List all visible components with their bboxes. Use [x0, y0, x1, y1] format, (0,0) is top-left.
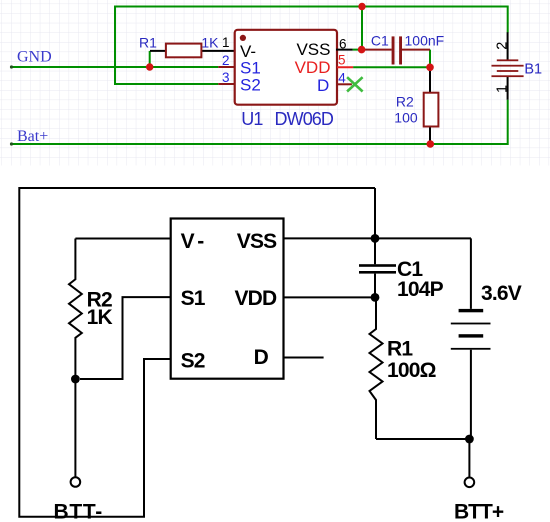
- svg-text:GND: GND: [17, 49, 52, 66]
- junction dot VDD/C1 (bottom): [371, 293, 380, 302]
- junction dot top wire: [358, 3, 365, 10]
- battery 3.6V: [451, 238, 522, 439]
- svg-text:1: 1: [494, 85, 510, 93]
- battery B1: [492, 32, 543, 99]
- resistor R2: [394, 67, 438, 144]
- junction dot R2/Bat+: [427, 140, 435, 148]
- junction dot VSS/C1: [358, 46, 366, 54]
- wire VDD row: [284, 296, 376, 298]
- svg-text:S2: S2: [240, 76, 261, 95]
- svg-text:104P: 104P: [397, 278, 444, 301]
- pin 6 VSS: [296, 36, 352, 59]
- svg-text:VSS: VSS: [237, 230, 277, 253]
- junction dot BTT+: [465, 435, 474, 444]
- svg-text:V -: V -: [181, 230, 205, 253]
- wire S1 to BTT- node: [80, 297, 171, 379]
- terminal BTT+: [465, 478, 475, 488]
- svg-text:6: 6: [339, 36, 347, 51]
- svg-text:D: D: [254, 346, 269, 369]
- svg-text:3.6V: 3.6V: [481, 282, 522, 305]
- svg-text:C1: C1: [371, 33, 389, 49]
- no-ERC marker X on pin 4: [347, 77, 363, 91]
- wire outer loop (S2 to VSS node): [19, 188, 375, 517]
- svg-text:R1: R1: [139, 35, 157, 51]
- wire VDD net: [353, 50, 430, 68]
- wire VSS node drop: [374, 188, 376, 238]
- wire bottom row to battery: [376, 438, 469, 440]
- pin 3 S2: [218, 70, 260, 95]
- wire GND net: [12, 66, 219, 68]
- capacitor C1: [361, 33, 444, 65]
- resistor R1: [139, 35, 235, 58]
- svg-text:VSS: VSS: [296, 40, 330, 59]
- svg-text:5: 5: [338, 53, 346, 68]
- svg-text:S1: S1: [181, 287, 206, 310]
- svg-text:R2: R2: [396, 93, 414, 109]
- wire VSS to battery: [284, 237, 472, 239]
- terminal BTT-: [71, 477, 81, 487]
- svg-text:1K: 1K: [87, 306, 113, 329]
- resistor R2 1K: [69, 239, 112, 380]
- svg-text:VDD: VDD: [234, 287, 277, 310]
- wire R1 to GND: [149, 51, 151, 67]
- wire Bat+ net: [12, 100, 508, 144]
- node GND endpoint: [10, 65, 13, 68]
- pin 5 VDD: [295, 53, 354, 77]
- junction dot VSS/C1 (bottom): [371, 234, 380, 243]
- svg-text:4: 4: [338, 70, 346, 85]
- pin 2 S1: [218, 53, 260, 78]
- svg-text:DW06D: DW06D: [275, 109, 334, 129]
- capacitor C1 104P: [359, 238, 444, 300]
- svg-text:100nF: 100nF: [405, 33, 445, 49]
- svg-text:1K: 1K: [201, 35, 219, 51]
- junction dot VDD/C1/R2: [426, 64, 434, 72]
- svg-text:U1: U1: [241, 109, 263, 129]
- svg-text:100Ω: 100Ω: [387, 359, 436, 382]
- pin 1 V-: [222, 35, 256, 61]
- svg-text:100: 100: [394, 110, 418, 126]
- pin 4 D: [317, 70, 352, 94]
- svg-text:2: 2: [494, 42, 510, 50]
- svg-text:VDD: VDD: [295, 58, 331, 77]
- wire V- to R2: [75, 238, 170, 240]
- node Bat+ endpoint: [10, 142, 13, 145]
- op-amp U1 DW06D chip body: [235, 30, 337, 129]
- svg-text:D: D: [317, 76, 329, 95]
- svg-text:2: 2: [222, 53, 230, 68]
- wire to BTT- terminal: [74, 383, 76, 477]
- svg-text:S2: S2: [181, 349, 205, 372]
- chip body (bottom): [171, 219, 284, 379]
- svg-text:3: 3: [222, 70, 230, 85]
- svg-text:R1: R1: [387, 337, 413, 360]
- junction dot BTT-: [71, 375, 80, 384]
- wire top net (S2/VSS/B1+): [115, 7, 508, 85]
- resistor R1 100ohm: [370, 297, 436, 439]
- svg-text:B1: B1: [524, 62, 542, 78]
- junction dot R1/GND: [146, 63, 153, 70]
- svg-text:BTT+: BTT+: [454, 501, 504, 522]
- wire VSS drop: [353, 7, 362, 50]
- wire to BTT+ terminal: [468, 443, 470, 477]
- pin stub D: [284, 357, 324, 359]
- svg-text:1: 1: [222, 35, 230, 50]
- svg-text:BTT-: BTT-: [54, 501, 103, 522]
- svg-text:Bat+: Bat+: [17, 128, 48, 145]
